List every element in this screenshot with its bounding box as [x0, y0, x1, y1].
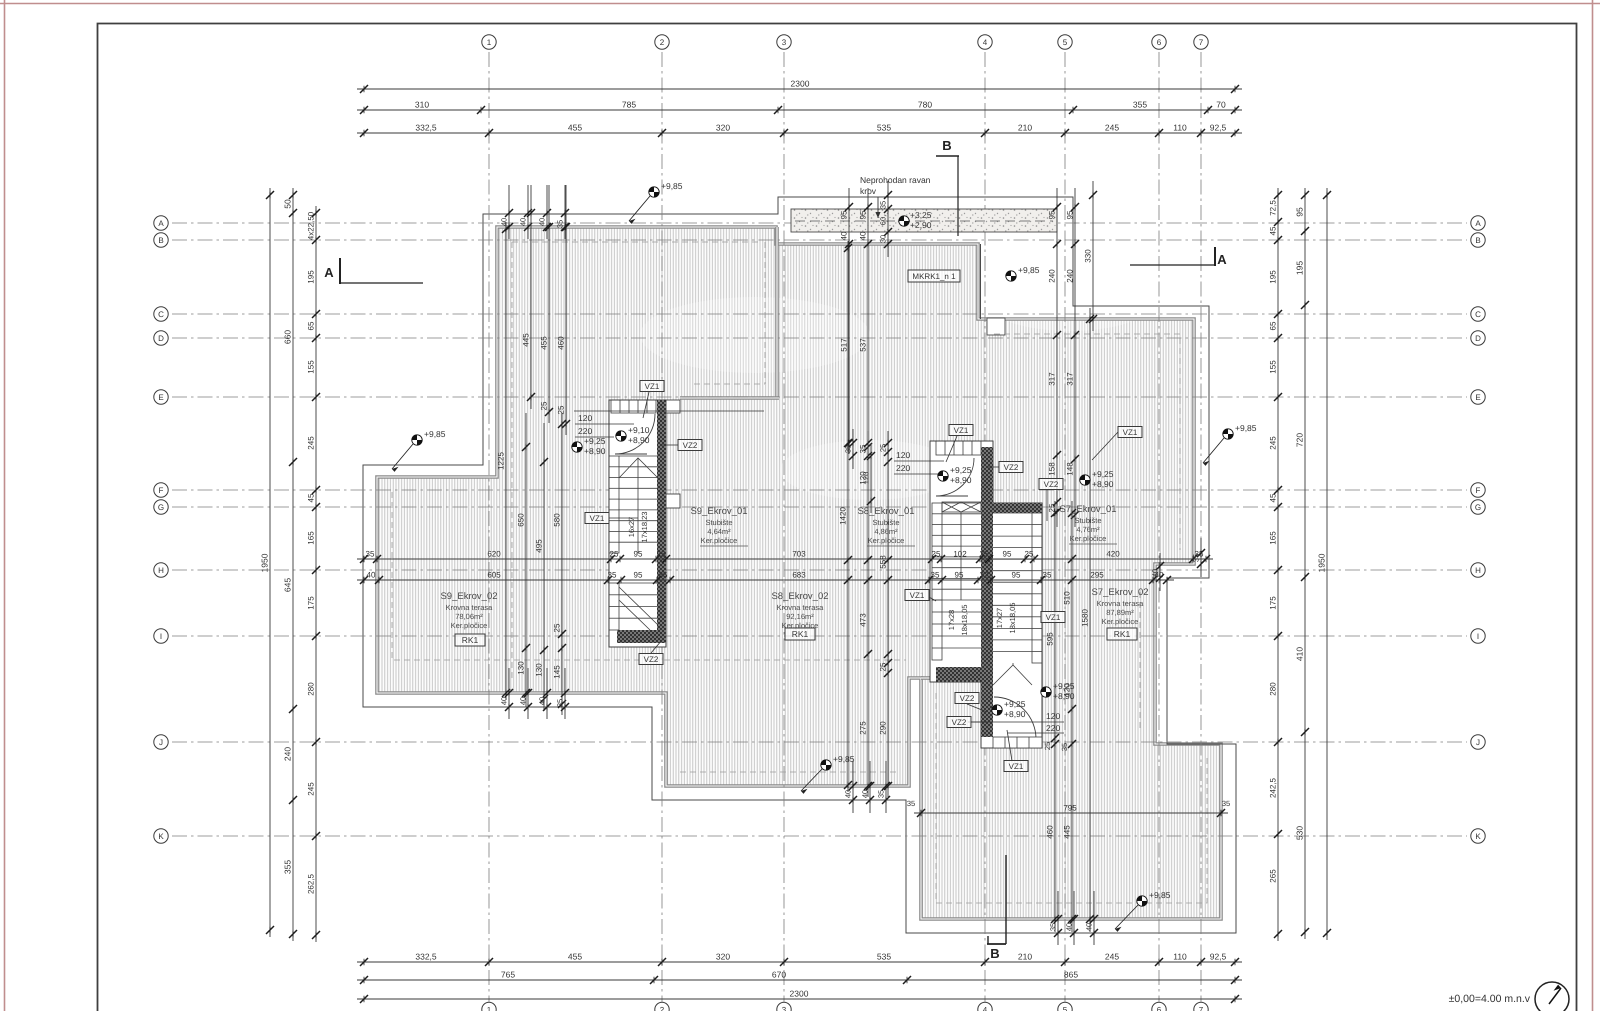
- svg-text:240: 240: [1066, 269, 1075, 283]
- svg-text:D: D: [1475, 334, 1481, 343]
- svg-text:195: 195: [307, 270, 316, 284]
- svg-text:C: C: [158, 310, 164, 319]
- svg-text:7: 7: [1199, 38, 1204, 47]
- interior vertical chains band/terrace: [848, 188, 850, 454]
- svg-text:4: 4: [983, 38, 988, 47]
- svg-text:785: 785: [622, 100, 636, 110]
- svg-text:VZ2: VZ2: [960, 694, 975, 703]
- svg-text:+9,85: +9,85: [1018, 265, 1040, 275]
- svg-text:F: F: [159, 486, 164, 495]
- svg-text:355: 355: [283, 860, 293, 874]
- svg-text:320: 320: [716, 123, 730, 133]
- svg-text:240: 240: [1048, 269, 1057, 283]
- terrace boundary lines: [980, 244, 982, 319]
- svg-text:G: G: [1475, 503, 1481, 512]
- svg-text:330: 330: [1084, 249, 1093, 263]
- svg-text:+9,10: +9,10: [628, 425, 650, 435]
- svg-text:7: 7: [1199, 1005, 1204, 1011]
- svg-text:VZ1: VZ1: [645, 382, 660, 391]
- svg-text:460: 460: [557, 336, 566, 350]
- svg-text:50: 50: [283, 199, 293, 209]
- svg-text:1225: 1225: [497, 452, 506, 470]
- svg-text:65: 65: [1269, 321, 1278, 330]
- svg-text:+9,25: +9,25: [1053, 681, 1075, 691]
- svg-text:148: 148: [1066, 462, 1075, 476]
- svg-text:580: 580: [553, 513, 562, 527]
- svg-text:95: 95: [1295, 207, 1305, 217]
- svg-text:RK1: RK1: [792, 629, 809, 639]
- svg-text:VZ1: VZ1: [590, 514, 605, 523]
- grid lines: [172, 52, 1467, 1002]
- svg-text:+3,25: +3,25: [910, 210, 932, 220]
- svg-text:40: 40: [500, 218, 509, 226]
- svg-text:317: 317: [1066, 372, 1075, 386]
- svg-text:40: 40: [367, 571, 376, 580]
- svg-text:195: 195: [1295, 261, 1305, 275]
- svg-text:620: 620: [487, 550, 501, 559]
- svg-text:35: 35: [366, 550, 375, 559]
- svg-text:Stubište: Stubište: [872, 518, 899, 527]
- svg-text:+8,90: +8,90: [950, 475, 972, 485]
- svg-text:+9,25: +9,25: [584, 436, 606, 446]
- svg-text:Stubište: Stubište: [705, 518, 732, 527]
- svg-text:660: 660: [283, 330, 293, 344]
- stubs under centre block bottom: [852, 761, 854, 813]
- svg-text:VZ1: VZ1: [910, 591, 925, 600]
- svg-text:4x22,50: 4x22,50: [307, 211, 316, 240]
- svg-text:17x28: 17x28: [947, 610, 956, 630]
- svg-text:17x18,23: 17x18,23: [640, 512, 649, 543]
- svg-text:130: 130: [535, 663, 544, 677]
- bottom wing width dim: [914, 812, 1228, 814]
- svg-text:Krovna terasa: Krovna terasa: [777, 603, 825, 612]
- svg-text:35: 35: [844, 445, 853, 453]
- svg-text:K: K: [158, 832, 164, 841]
- svg-text:A: A: [1217, 252, 1227, 267]
- svg-text:H: H: [158, 566, 164, 575]
- svg-text:2300: 2300: [791, 79, 810, 89]
- svg-text:683: 683: [792, 571, 806, 580]
- svg-text:703: 703: [792, 550, 806, 559]
- S9 stair core: [609, 400, 666, 647]
- svg-text:120: 120: [578, 413, 592, 423]
- svg-text:VZ1: VZ1: [1046, 613, 1061, 622]
- svg-text:S7_Ekrov_01: S7_Ekrov_01: [1059, 504, 1116, 515]
- svg-text:1950: 1950: [260, 553, 270, 572]
- svg-text:95: 95: [955, 571, 964, 580]
- svg-text:A: A: [158, 219, 164, 228]
- svg-text:245: 245: [307, 782, 316, 796]
- svg-text:4,86m²: 4,86m²: [874, 527, 898, 536]
- svg-text:40: 40: [1065, 923, 1074, 931]
- svg-text:25: 25: [1025, 550, 1034, 559]
- small stubs bottom wing: [1057, 891, 1059, 945]
- svg-text:J: J: [159, 738, 163, 747]
- svg-text:Ker.pločice: Ker.pločice: [451, 621, 488, 630]
- svg-text:2: 2: [660, 38, 665, 47]
- svg-text:517: 517: [840, 338, 849, 352]
- right dimension chains: [1277, 188, 1279, 941]
- svg-text:455: 455: [568, 123, 582, 133]
- svg-text:40: 40: [500, 697, 509, 705]
- svg-text:410: 410: [1295, 647, 1305, 661]
- svg-text:445: 445: [1063, 825, 1072, 839]
- svg-text:3: 3: [782, 1005, 787, 1011]
- svg-text:RK1: RK1: [1114, 629, 1131, 639]
- svg-text:145: 145: [553, 665, 562, 679]
- svg-text:72,5: 72,5: [1269, 200, 1278, 216]
- svg-text:865: 865: [1064, 970, 1078, 980]
- svg-text:95: 95: [840, 210, 849, 219]
- svg-text:+9,85: +9,85: [661, 181, 683, 191]
- svg-text:1580: 1580: [1081, 609, 1090, 627]
- svg-text:95: 95: [1003, 550, 1012, 559]
- svg-text:D: D: [158, 334, 164, 343]
- svg-text:VZ2: VZ2: [1004, 463, 1019, 472]
- svg-text:65: 65: [307, 321, 316, 330]
- interior vertical chains lower-left: [505, 222, 507, 700]
- svg-text:455: 455: [568, 952, 582, 962]
- svg-text:158: 158: [1048, 462, 1057, 476]
- svg-text:4: 4: [983, 1005, 988, 1011]
- svg-text:245: 245: [1269, 436, 1278, 450]
- svg-text:45: 45: [1269, 226, 1278, 235]
- dashed roof inset lines: [392, 242, 1207, 903]
- svg-text:VZ2: VZ2: [683, 441, 698, 450]
- parapet thick line: [377, 227, 1221, 919]
- VZ labels: [640, 381, 664, 392]
- svg-text:175: 175: [1269, 596, 1278, 610]
- svg-text:510: 510: [1063, 591, 1072, 605]
- svg-text:240: 240: [283, 747, 293, 761]
- svg-text:210: 210: [1018, 123, 1032, 133]
- svg-text:110: 110: [1173, 952, 1187, 962]
- svg-text:70: 70: [1216, 100, 1226, 110]
- svg-text:I: I: [1477, 632, 1479, 641]
- svg-text:455: 455: [540, 336, 549, 350]
- stair elevation labels: [572, 442, 582, 452]
- svg-text:18x18,05: 18x18,05: [960, 605, 969, 636]
- svg-text:5: 5: [1063, 38, 1068, 47]
- svg-text:87,89m²: 87,89m²: [1106, 608, 1134, 617]
- svg-text:Ker.pločice: Ker.pločice: [1070, 534, 1107, 543]
- svg-text:3: 3: [782, 38, 787, 47]
- svg-text:120: 120: [896, 450, 910, 460]
- svg-text:VZ1: VZ1: [1009, 762, 1024, 771]
- svg-text:+9,85: +9,85: [833, 754, 855, 764]
- svg-text:+9,85: +9,85: [424, 429, 446, 439]
- svg-text:S9_Ekrov_02: S9_Ekrov_02: [440, 591, 497, 602]
- svg-text:2300: 2300: [790, 989, 809, 999]
- svg-text:45: 45: [1269, 493, 1278, 502]
- svg-text:45: 45: [307, 493, 316, 502]
- svg-text:MKRK1_n 1: MKRK1_n 1: [912, 272, 956, 281]
- interior vertical chains left wing: [508, 185, 510, 239]
- svg-text:332,5: 332,5: [415, 123, 437, 133]
- svg-text:220: 220: [578, 426, 592, 436]
- svg-text:32: 32: [980, 571, 989, 580]
- svg-text:95: 95: [1012, 571, 1021, 580]
- parapet separators: [775, 227, 779, 398]
- svg-text:Neprohodan ravan: Neprohodan ravan: [860, 175, 931, 185]
- svg-text:+8,90: +8,90: [628, 435, 650, 445]
- svg-text:78,06m²: 78,06m²: [455, 612, 483, 621]
- svg-text:S8_Ekrov_02: S8_Ekrov_02: [771, 591, 828, 602]
- svg-text:VZ1: VZ1: [1123, 428, 1138, 437]
- svg-text:Ker.pločice: Ker.pločice: [868, 536, 905, 545]
- svg-text:40: 40: [519, 218, 528, 226]
- svg-text:1950: 1950: [1317, 553, 1327, 572]
- svg-text:Krovna terasa: Krovna terasa: [1097, 599, 1145, 608]
- svg-text:6: 6: [1157, 1005, 1162, 1011]
- svg-text:A: A: [324, 265, 334, 280]
- svg-text:220: 220: [896, 463, 910, 473]
- outer thin outline: [363, 197, 1236, 933]
- svg-text:210: 210: [1018, 952, 1032, 962]
- svg-text:175: 175: [307, 596, 316, 610]
- svg-text:C: C: [1475, 310, 1481, 319]
- red page border: [4, 0, 6, 1011]
- svg-text:120: 120: [862, 472, 871, 485]
- svg-text:S7_Ekrov_02: S7_Ekrov_02: [1091, 587, 1148, 598]
- MKRK1 label: [908, 270, 960, 282]
- svg-text:265: 265: [1269, 869, 1278, 883]
- svg-text:4,76m²: 4,76m²: [1076, 525, 1100, 534]
- svg-text:VZ2: VZ2: [952, 718, 967, 727]
- svg-text:95: 95: [634, 550, 643, 559]
- svg-text:220: 220: [1046, 723, 1060, 733]
- svg-text:40: 40: [844, 790, 853, 798]
- svg-text:355: 355: [1133, 100, 1147, 110]
- svg-text:+8,90: +8,90: [1004, 709, 1026, 719]
- svg-text:130: 130: [517, 661, 526, 675]
- svg-text:95: 95: [1048, 210, 1057, 219]
- svg-text:B: B: [158, 236, 163, 245]
- svg-text:295: 295: [1090, 571, 1104, 580]
- svg-text:35: 35: [556, 220, 565, 228]
- right wing step dims: [1200, 538, 1202, 577]
- svg-text:25: 25: [980, 550, 989, 559]
- svg-text:2: 2: [660, 1005, 665, 1011]
- svg-text:35: 35: [1192, 554, 1201, 562]
- svg-text:420: 420: [1106, 550, 1120, 559]
- svg-text:275: 275: [859, 721, 868, 735]
- svg-text:35: 35: [1222, 799, 1230, 808]
- svg-text:Ker.pločice: Ker.pločice: [701, 536, 738, 545]
- svg-text:670: 670: [772, 970, 786, 980]
- left dimension chains: [269, 188, 271, 937]
- svg-text:280: 280: [1269, 682, 1278, 696]
- elevation marker +9,85 right: [1223, 429, 1233, 439]
- svg-text:35: 35: [1049, 923, 1058, 931]
- svg-text:VZ1: VZ1: [954, 426, 969, 435]
- svg-text:25: 25: [657, 550, 666, 559]
- svg-text:445: 445: [522, 333, 531, 347]
- svg-text:460: 460: [1046, 825, 1055, 839]
- svg-text:VZ2: VZ2: [644, 655, 659, 664]
- svg-text:155: 155: [1269, 360, 1278, 374]
- svg-text:60,: 60,: [879, 215, 888, 225]
- S8 S7 stair cores: [930, 441, 1042, 748]
- svg-text:J: J: [1476, 738, 1480, 747]
- svg-text:K: K: [1475, 832, 1481, 841]
- svg-text:B: B: [1475, 236, 1480, 245]
- svg-text:40: 40: [859, 231, 868, 240]
- svg-text:40: 40: [538, 218, 547, 226]
- svg-text:H: H: [1475, 566, 1481, 575]
- svg-text:332,5: 332,5: [415, 952, 437, 962]
- svg-text:25: 25: [557, 405, 566, 414]
- svg-text:25: 25: [879, 662, 888, 671]
- svg-text:16x27: 16x27: [627, 517, 636, 537]
- svg-text:VZ2: VZ2: [1044, 480, 1059, 489]
- svg-text:110: 110: [1173, 123, 1187, 133]
- svg-text:18x18,05: 18x18,05: [1008, 603, 1017, 634]
- svg-text:495: 495: [535, 539, 544, 553]
- svg-text:473: 473: [859, 613, 868, 627]
- svg-text:95: 95: [859, 210, 868, 219]
- svg-text:A: A: [1475, 219, 1481, 228]
- svg-text:780: 780: [918, 100, 932, 110]
- svg-text:E: E: [158, 393, 163, 402]
- svg-text:B: B: [942, 138, 951, 153]
- svg-text:1: 1: [487, 38, 492, 47]
- svg-text:92,5: 92,5: [1210, 123, 1227, 133]
- svg-text:+9,25: +9,25: [1092, 469, 1114, 479]
- svg-text:92,16m²: 92,16m²: [786, 612, 814, 621]
- svg-text:5: 5: [1063, 1005, 1068, 1011]
- door tags 120/220 S9: [574, 410, 764, 412]
- svg-text:35: 35: [877, 790, 886, 798]
- elevation marker +9,85 center-bottom: [821, 760, 831, 770]
- grid bubbles: [482, 35, 496, 49]
- svg-text:17x27: 17x27: [995, 608, 1004, 628]
- svg-text:E: E: [1475, 393, 1480, 402]
- svg-text:25: 25: [540, 401, 549, 410]
- svg-text:530: 530: [1295, 826, 1305, 840]
- elevation marker +9,85 left: [412, 435, 422, 445]
- svg-text:Ker.pločice: Ker.pločice: [1102, 617, 1139, 626]
- svg-text:165: 165: [1269, 531, 1278, 545]
- svg-text:F: F: [1476, 486, 1481, 495]
- svg-text:35: 35: [879, 201, 888, 209]
- svg-text:645: 645: [283, 578, 293, 592]
- svg-text:G: G: [158, 503, 164, 512]
- svg-text:720: 720: [1295, 433, 1305, 447]
- svg-text:320: 320: [716, 952, 730, 962]
- svg-text:1420: 1420: [839, 507, 848, 525]
- svg-text:+9,25: +9,25: [1004, 699, 1026, 709]
- svg-text:280: 280: [307, 682, 316, 696]
- svg-text:25: 25: [1043, 742, 1052, 750]
- svg-text:25: 25: [932, 550, 941, 559]
- svg-text:650: 650: [517, 513, 526, 527]
- svg-text:120: 120: [1046, 711, 1060, 721]
- svg-text:30: 30: [879, 235, 888, 243]
- svg-text:35: 35: [608, 571, 617, 580]
- svg-text:35: 35: [1060, 743, 1069, 751]
- svg-text:95: 95: [634, 571, 643, 580]
- svg-text:+8,90: +8,90: [1053, 691, 1075, 701]
- elevation marker +9,85 bottom wing: [1137, 896, 1147, 906]
- svg-text:I: I: [160, 632, 162, 641]
- svg-text:±0,00=4.00 m.n.v: ±0,00=4.00 m.n.v: [1449, 993, 1531, 1005]
- svg-text:245: 245: [1105, 952, 1119, 962]
- svg-text:245: 245: [307, 436, 316, 450]
- top dimension chains: [357, 88, 1242, 90]
- svg-text:155: 155: [307, 360, 316, 374]
- svg-text:595: 595: [1046, 632, 1055, 646]
- svg-text:25: 25: [610, 550, 619, 559]
- flat roof band: [791, 209, 1057, 232]
- svg-text:535: 535: [877, 123, 891, 133]
- svg-text:40: 40: [519, 697, 528, 705]
- svg-text:S8_Ekrov_01: S8_Ekrov_01: [857, 506, 914, 517]
- svg-text:245: 245: [1105, 123, 1119, 133]
- svg-text:35: 35: [931, 571, 940, 580]
- svg-text:35: 35: [1043, 571, 1052, 580]
- svg-text:+9,25: +9,25: [950, 465, 972, 475]
- svg-text:558: 558: [879, 555, 888, 569]
- interior vertical chains S7: [1054, 501, 1056, 932]
- svg-text:317: 317: [1048, 372, 1057, 386]
- svg-text:+8,90: +8,90: [584, 446, 606, 456]
- roof hatched area: [377, 227, 1221, 919]
- svg-text:35: 35: [556, 699, 565, 707]
- svg-text:165: 165: [307, 531, 316, 545]
- svg-text:35: 35: [859, 444, 868, 453]
- svg-text:40: 40: [1085, 923, 1094, 931]
- svg-text:6: 6: [1157, 38, 1162, 47]
- svg-text:Stubište: Stubište: [1074, 516, 1101, 525]
- svg-text:25: 25: [879, 444, 888, 452]
- svg-text:535: 535: [877, 952, 891, 962]
- svg-text:242,5: 242,5: [1269, 777, 1278, 798]
- svg-text:+9,85: +9,85: [1149, 890, 1171, 900]
- svg-text:35: 35: [907, 799, 915, 808]
- svg-text:40: 40: [538, 697, 547, 705]
- interior dimension chain H2: [357, 579, 1174, 581]
- svg-text:40: 40: [840, 231, 849, 240]
- svg-text:290: 290: [879, 721, 888, 735]
- elevation marker +9,85 top: [649, 187, 659, 197]
- svg-text:92,5: 92,5: [1210, 952, 1227, 962]
- svg-text:262,5: 262,5: [307, 873, 316, 894]
- svg-text:S9_Ekrov_01: S9_Ekrov_01: [690, 506, 747, 517]
- svg-text:102: 102: [953, 550, 967, 559]
- svg-text:25: 25: [553, 623, 562, 632]
- svg-text:Krovna terasa: Krovna terasa: [446, 603, 494, 612]
- svg-text:+8,90: +8,90: [1092, 479, 1114, 489]
- elevation marker +9,85 terrace: [1006, 271, 1016, 281]
- svg-text:795: 795: [1063, 804, 1077, 813]
- bottom dimension chains: [357, 961, 1242, 963]
- svg-text:B: B: [990, 946, 999, 961]
- svg-text:765: 765: [501, 970, 515, 980]
- svg-text:+9,85: +9,85: [1235, 423, 1257, 433]
- svg-text:4,64m²: 4,64m²: [707, 527, 731, 536]
- interior vertical chains center: [847, 241, 849, 792]
- svg-text:537: 537: [859, 338, 868, 352]
- svg-text:195: 195: [1269, 270, 1278, 284]
- svg-text:95: 95: [1066, 210, 1075, 219]
- svg-text:35: 35: [659, 571, 668, 580]
- svg-text:RK1: RK1: [462, 635, 479, 645]
- svg-text:+2,90: +2,90: [910, 220, 932, 230]
- svg-text:1: 1: [487, 1005, 492, 1011]
- svg-text:40: 40: [1151, 569, 1160, 577]
- svg-text:40: 40: [861, 790, 870, 798]
